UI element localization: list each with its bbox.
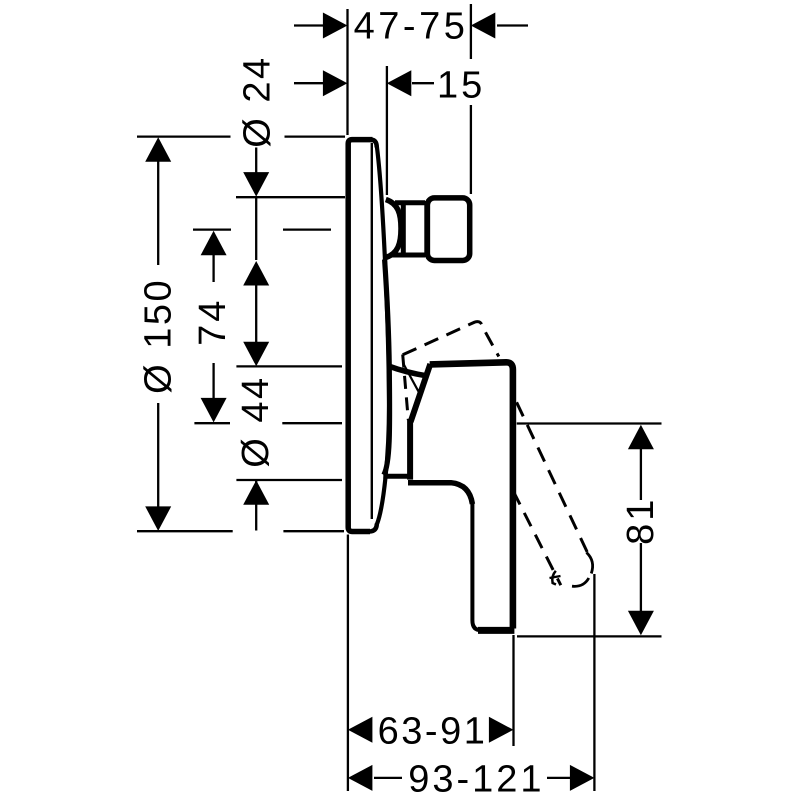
arrow 74 top — [201, 231, 227, 256]
handle body top edge and right edge — [430, 362, 513, 628]
arrow 74 bottom — [201, 398, 227, 423]
dashed raised lever right line — [517, 402, 589, 555]
raised-position hub thin diagonal — [404, 365, 421, 397]
plate back edge — [377, 146, 389, 525]
dashed raised lever left line — [513, 491, 561, 585]
arrow 93-121 right — [570, 765, 595, 791]
extension line lever bottom (81) — [517, 635, 662, 637]
arrow 47-75 left — [323, 13, 348, 39]
lever left edge — [472, 501, 481, 630]
dashed lever end cap — [587, 553, 593, 574]
arrow d24 top — [243, 172, 269, 197]
dimension d150 line — [157, 160, 159, 508]
hub shoulder arc — [389, 366, 427, 376]
plate outline (escutcheon front face, top and bottom edges) — [348, 140, 372, 532]
knob ring divider line — [424, 201, 426, 257]
knob bell (trumpet joint at plate) — [386, 200, 401, 258]
dimension d44 line — [255, 481, 257, 531]
extension line handle centerline — [194, 422, 342, 424]
dimension d24 line — [255, 148, 257, 344]
arrow 15 right — [387, 70, 412, 96]
extension line handle centerline right — [517, 422, 662, 424]
plate inner face line — [371, 143, 373, 519]
neck bottom edge right with corner into lever — [408, 483, 472, 504]
knob body (round handle end) — [427, 198, 469, 261]
svg-text:Ø 44: Ø 44 — [235, 375, 277, 467]
extension line vertical plate front top — [346, 9, 348, 135]
neck bottom edge left — [383, 474, 410, 479]
extension line vertical knob end — [470, 4, 472, 194]
svg-text:15: 15 — [437, 65, 485, 107]
extension line hub bottom (d44) — [236, 479, 342, 481]
dimension 81 line — [640, 448, 642, 611]
dimension 15 leaders — [294, 82, 434, 84]
extension line vertical plate back — [386, 66, 388, 195]
arrow d44 top — [243, 342, 269, 367]
lever bottom edge — [478, 627, 514, 634]
dashed raised handle left edge — [403, 355, 409, 421]
extension line knob centerline — [193, 228, 331, 230]
dashed raised handle top edge with corner — [403, 322, 499, 357]
knob ring top edge — [395, 200, 425, 205]
arrow 47-75 right — [471, 13, 496, 39]
plate top-right corner — [371, 140, 377, 148]
svg-text:74: 74 — [192, 298, 234, 346]
svg-text:Ø 150: Ø 150 — [138, 278, 180, 394]
arrow d150 top — [145, 137, 171, 162]
arrow 81 top — [628, 425, 654, 450]
arrow d24 bottom — [243, 261, 269, 286]
arrow 93-121 left — [348, 765, 373, 791]
arrow d150 bottom — [145, 506, 171, 531]
arrow d44 bottom — [243, 480, 269, 505]
knob ring left edge — [401, 204, 406, 255]
extension line vertical dashed lever end — [593, 574, 595, 791]
handle body left vertical edge — [407, 419, 413, 480]
svg-text:Ø 24: Ø 24 — [237, 55, 279, 147]
plate bottom-right corner — [370, 524, 377, 532]
svg-text:81: 81 — [620, 497, 662, 545]
svg-text:63-91: 63-91 — [378, 711, 488, 753]
arrow 81 bottom — [628, 611, 654, 636]
arrow 63-91 left — [348, 717, 373, 743]
arrow 63-91 right — [489, 717, 514, 743]
knob ring bottom edge — [392, 253, 425, 258]
dimension 93-121 line segments — [374, 777, 572, 779]
extension line vertical plate front bottom — [347, 535, 349, 792]
dimension 47-75 leaders — [294, 24, 528, 26]
arrow 15 left — [323, 70, 348, 96]
hub silhouette (handle cone over plate) — [384, 260, 390, 475]
extension line plate bottom — [137, 530, 344, 532]
dimension 74 line — [212, 252, 214, 399]
extension line hub top (d44) — [236, 365, 342, 367]
extension line plate top — [137, 135, 345, 137]
handle body left slant edge — [411, 364, 431, 422]
svg-text:93-121: 93-121 — [408, 758, 544, 800]
extension line vertical lever edge — [512, 635, 514, 746]
svg-text:47-75: 47-75 — [354, 6, 469, 48]
extension line knob top — [236, 196, 345, 198]
